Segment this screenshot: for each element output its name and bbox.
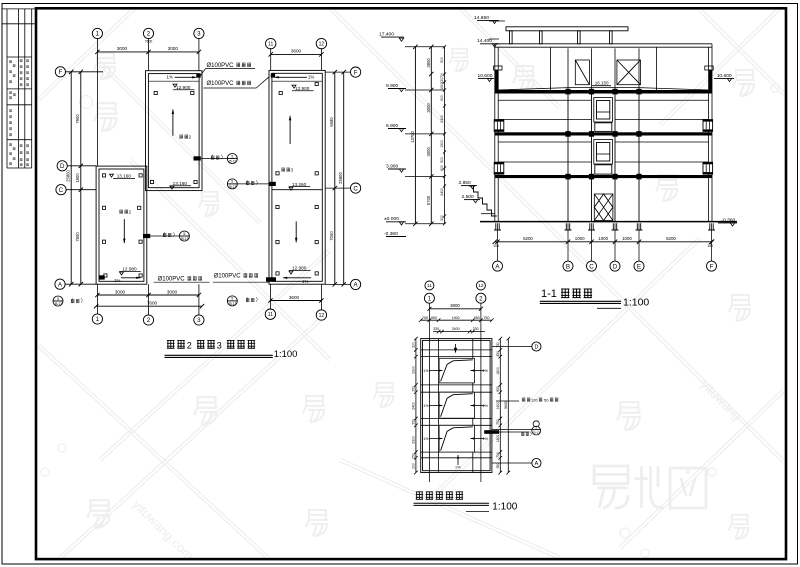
right dim chains bbox=[333, 70, 346, 287]
svg-text:2300: 2300 bbox=[412, 436, 416, 444]
svg-text:9.900: 9.900 bbox=[386, 83, 399, 89]
svg-text:13.260: 13.260 bbox=[292, 182, 307, 187]
svg-text:200: 200 bbox=[412, 342, 416, 348]
svg-text:6580: 6580 bbox=[329, 117, 334, 127]
svg-text:C: C bbox=[589, 263, 594, 270]
watermark circles bbox=[80, 96, 93, 109]
svg-text:1: 1 bbox=[96, 31, 100, 38]
slope arrow right shaft lower bbox=[295, 221, 297, 242]
svg-text:3000: 3000 bbox=[168, 46, 179, 51]
svg-text:16.150: 16.150 bbox=[595, 81, 609, 86]
elevator shaft car 2F bbox=[594, 140, 613, 165]
axis leaders (bottom plan) bbox=[429, 303, 481, 338]
svg-text:3: 3 bbox=[197, 317, 201, 324]
axis circle D section bbox=[610, 261, 620, 271]
roof vent left bbox=[575, 60, 589, 85]
svg-text:3800: 3800 bbox=[450, 303, 460, 308]
window right 2F bbox=[703, 162, 713, 174]
svg-text:〉: 〉 bbox=[81, 297, 86, 304]
svg-text:J5-13: J5-13 bbox=[228, 160, 236, 164]
svg-text:F: F bbox=[354, 69, 358, 76]
svg-text:5: 5 bbox=[57, 297, 59, 301]
watermark logo bottom right bbox=[594, 466, 628, 508]
horizontal beam lines bbox=[421, 350, 492, 458]
svg-text:2400: 2400 bbox=[440, 188, 444, 196]
ramp cell 2 bbox=[439, 392, 474, 418]
svg-text:2300: 2300 bbox=[412, 366, 416, 374]
exterior stair left bbox=[469, 186, 497, 216]
svg-text:1:100: 1:100 bbox=[492, 501, 517, 512]
axis circle 12 bbox=[316, 38, 326, 48]
svg-text:200: 200 bbox=[412, 463, 416, 469]
svg-text:1%: 1% bbox=[302, 279, 308, 284]
roof2 label upper shaft bbox=[179, 135, 182, 139]
interior columns B C D E bbox=[568, 94, 639, 222]
svg-text:1:100: 1:100 bbox=[623, 297, 649, 309]
penthouse axis walls above roof bbox=[568, 48, 639, 90]
axis circle 11 bbox=[266, 38, 276, 48]
svg-text:5: 5 bbox=[535, 426, 537, 430]
axis circle A (bottom plan) bbox=[532, 458, 541, 467]
svg-text:F: F bbox=[59, 69, 63, 76]
svg-text:F: F bbox=[710, 263, 714, 270]
svg-text:7900: 7900 bbox=[75, 114, 80, 124]
svg-text:±0.000: ±0.000 bbox=[384, 216, 399, 222]
right axis leaders bbox=[325, 72, 350, 284]
svg-text:300: 300 bbox=[440, 215, 444, 221]
svg-text:950: 950 bbox=[431, 316, 437, 320]
ramp cell 3 bbox=[439, 425, 474, 452]
svg-text:1600: 1600 bbox=[496, 402, 500, 410]
svg-text:2.850: 2.850 bbox=[459, 180, 472, 186]
svg-text:2: 2 bbox=[147, 31, 151, 38]
svg-text:J5-13: J5-13 bbox=[54, 302, 62, 306]
svg-text:25800: 25800 bbox=[338, 172, 343, 184]
axis circle B section bbox=[563, 261, 573, 271]
svg-text:3800: 3800 bbox=[426, 58, 431, 68]
svg-text:3: 3 bbox=[197, 31, 201, 38]
axis circle F section bbox=[707, 261, 717, 271]
upper shaft walls (roof 2) bbox=[146, 71, 203, 191]
svg-text:600: 600 bbox=[440, 165, 444, 171]
svg-text:3000: 3000 bbox=[426, 103, 431, 113]
axis circle 1 top (bottom plan) bbox=[424, 293, 434, 303]
svg-text:3000: 3000 bbox=[426, 146, 431, 156]
svg-text:7000: 7000 bbox=[329, 231, 334, 241]
axis circle 3 bbox=[194, 28, 204, 38]
svg-text:950: 950 bbox=[496, 463, 500, 469]
svg-text:900: 900 bbox=[440, 57, 444, 63]
svg-text:1%: 1% bbox=[423, 437, 429, 441]
svg-text:3600: 3600 bbox=[289, 295, 300, 300]
floor3 slab bbox=[495, 132, 712, 135]
axis circle C section bbox=[587, 261, 597, 271]
svg-text:11: 11 bbox=[427, 283, 432, 289]
svg-text:25800: 25800 bbox=[66, 170, 71, 182]
bottom dim line 3600 bbox=[268, 298, 323, 302]
svg-text:1%: 1% bbox=[423, 369, 429, 373]
beam blobs at axes bbox=[565, 89, 570, 95]
svg-text:14.650: 14.650 bbox=[474, 15, 489, 21]
dim row 750/950/1900/950/750 bbox=[419, 318, 494, 322]
svg-text:1000: 1000 bbox=[598, 236, 608, 241]
section dim chain total 13700 bbox=[413, 45, 417, 226]
svg-text:2: 2 bbox=[187, 340, 192, 350]
axis circle F right bbox=[351, 67, 361, 77]
svg-text:900: 900 bbox=[440, 157, 444, 163]
svg-text:5: 5 bbox=[231, 180, 233, 184]
axis circle C right bbox=[351, 183, 361, 193]
top dimension line 1-3 bbox=[95, 50, 201, 54]
axis circle 3 bottom bbox=[194, 315, 204, 325]
svg-text:5: 5 bbox=[183, 232, 185, 236]
svg-text:250: 250 bbox=[412, 419, 416, 425]
left dim chain (bottom plan) bbox=[414, 337, 418, 475]
axis circle D left bbox=[57, 161, 67, 171]
svg-text:1%: 1% bbox=[308, 75, 314, 80]
svg-text:3: 3 bbox=[217, 340, 222, 350]
svg-text:750: 750 bbox=[496, 419, 500, 425]
plus-minus zero line left bbox=[481, 213, 495, 215]
dim 3800 (bottom plan) bbox=[427, 307, 483, 311]
svg-text:750: 750 bbox=[422, 316, 428, 320]
svg-text:1-1: 1-1 bbox=[541, 288, 557, 300]
svg-text:1800: 1800 bbox=[75, 173, 80, 183]
svg-text:13700: 13700 bbox=[410, 131, 415, 143]
svg-text:〉: 〉 bbox=[173, 231, 178, 238]
svg-text:7600: 7600 bbox=[147, 301, 158, 306]
svg-text:Ø100PVC: Ø100PVC bbox=[158, 277, 186, 283]
svg-text:120: 120 bbox=[531, 398, 538, 403]
top dimension line 11-12 bbox=[269, 52, 324, 56]
svg-text:9600: 9600 bbox=[504, 401, 508, 409]
bottom dim line 7600 bbox=[94, 304, 204, 308]
axis circle E section bbox=[634, 261, 644, 271]
svg-text:E: E bbox=[637, 263, 641, 270]
watermark yi glyphs bbox=[94, 103, 117, 131]
svg-text:5200: 5200 bbox=[523, 236, 533, 241]
mid-bay verticals above roof bbox=[551, 47, 657, 90]
svg-text:50: 50 bbox=[544, 398, 549, 403]
bottom dim line section bbox=[493, 240, 715, 244]
leaders to D and A circles bbox=[492, 347, 532, 464]
detail marker M2 bbox=[227, 179, 237, 189]
right dim total (bottom plan) bbox=[507, 337, 511, 475]
axis verticals inside bbox=[429, 339, 481, 473]
svg-text:3000: 3000 bbox=[117, 46, 128, 51]
svg-text:3000: 3000 bbox=[167, 289, 178, 294]
svg-text:10.600: 10.600 bbox=[717, 73, 732, 79]
svg-text:13.160: 13.160 bbox=[117, 174, 132, 179]
gutter lines shaft tops bbox=[149, 80, 323, 82]
svg-text:900: 900 bbox=[440, 95, 444, 101]
svg-text:250: 250 bbox=[412, 386, 416, 392]
detail marker (bottom plan) bbox=[533, 421, 539, 427]
svg-text:1: 1 bbox=[96, 316, 100, 323]
section axis leader stubs bbox=[498, 223, 712, 261]
svg-text:17.400: 17.400 bbox=[379, 32, 394, 38]
svg-text:5: 5 bbox=[231, 154, 233, 158]
svg-text:Ø100PVC: Ø100PVC bbox=[214, 274, 242, 280]
svg-text:950: 950 bbox=[474, 316, 480, 320]
svg-text:1%: 1% bbox=[167, 75, 173, 80]
svg-text:250: 250 bbox=[412, 453, 416, 459]
outer wall right bbox=[709, 44, 712, 222]
lower-left room walls bbox=[96, 166, 147, 284]
note pingban text bbox=[522, 398, 525, 401]
elevator shaft car 3F bbox=[594, 98, 613, 123]
slope arrow upper shaft bbox=[172, 109, 174, 135]
title strip table bbox=[3, 9, 35, 168]
svg-text:5200: 5200 bbox=[666, 236, 676, 241]
svg-text:12: 12 bbox=[319, 41, 325, 47]
svg-text:13.160: 13.160 bbox=[173, 181, 188, 186]
svg-text:10.600: 10.600 bbox=[478, 73, 493, 79]
bottom axis stubs (bottom plan) bbox=[429, 473, 481, 483]
title strip tiny text bbox=[9, 60, 12, 63]
svg-text:3.900: 3.900 bbox=[386, 163, 399, 169]
svg-text:C: C bbox=[59, 187, 64, 194]
svg-text:1000: 1000 bbox=[622, 236, 632, 241]
svg-text:〉: 〉 bbox=[256, 296, 261, 303]
svg-text:1%: 1% bbox=[455, 465, 461, 469]
canopy slab 14.650 bbox=[506, 27, 628, 31]
floor2 slab bbox=[495, 175, 712, 178]
svg-text:1%: 1% bbox=[114, 278, 120, 283]
svg-text:1800: 1800 bbox=[496, 435, 500, 443]
svg-text:(2070): (2070) bbox=[440, 73, 444, 83]
axis circle A right bbox=[351, 279, 361, 289]
svg-text:950: 950 bbox=[496, 386, 500, 392]
roof slope lines bbox=[498, 88, 708, 90]
svg-text:3000: 3000 bbox=[115, 289, 126, 294]
svg-text:1500: 1500 bbox=[440, 140, 444, 148]
axis circle 12 bottom bbox=[316, 310, 326, 320]
svg-text:1%: 1% bbox=[423, 404, 429, 408]
detail marker M5 bbox=[53, 296, 63, 306]
roof vent right bbox=[617, 60, 641, 85]
dim row 330/2400/330 bbox=[433, 330, 485, 334]
svg-text:6.900: 6.900 bbox=[386, 123, 399, 129]
svg-text:2400: 2400 bbox=[452, 327, 460, 331]
elevator counterweights bbox=[595, 123, 612, 132]
axis circle 2 top (bottom plan) bbox=[476, 293, 486, 303]
svg-text:1900: 1900 bbox=[452, 316, 460, 320]
bottom dim line 3000/3000 bbox=[95, 293, 201, 297]
svg-text:2400: 2400 bbox=[440, 115, 444, 123]
roof3 label right shaft bbox=[281, 168, 284, 172]
window right 3F bbox=[703, 120, 713, 132]
svg-text:12: 12 bbox=[319, 313, 325, 319]
svg-text:12.980: 12.980 bbox=[292, 266, 307, 271]
column squares bbox=[154, 91, 157, 94]
axis circle D (bottom plan) bbox=[532, 342, 541, 351]
svg-text:B: B bbox=[566, 263, 570, 270]
axis circle F left bbox=[55, 67, 65, 77]
detail marker M4 bbox=[227, 296, 237, 306]
svg-text:J5-13: J5-13 bbox=[228, 185, 236, 189]
left axis leaders bbox=[65, 72, 103, 284]
svg-text:450: 450 bbox=[496, 351, 500, 357]
roof slab bbox=[495, 90, 712, 94]
plan title bbox=[167, 340, 175, 348]
axis circle 11 top (bottom plan) bbox=[425, 281, 434, 290]
ground line bbox=[480, 221, 737, 223]
svg-text:2: 2 bbox=[147, 317, 151, 324]
svg-text:1800: 1800 bbox=[496, 367, 500, 375]
right shaft walls (roof 3) bbox=[269, 70, 325, 284]
svg-text:D: D bbox=[613, 263, 618, 270]
axis circle 1 bottom bbox=[92, 314, 102, 324]
axis circle A section bbox=[493, 261, 503, 271]
svg-text:1%: 1% bbox=[483, 437, 489, 441]
elevator door ground diamond bbox=[594, 194, 613, 221]
axis circle 2 bbox=[143, 28, 153, 38]
section fine dim chain bbox=[443, 45, 446, 225]
svg-text:1%: 1% bbox=[483, 369, 489, 373]
axis circle 1 bbox=[92, 28, 102, 38]
svg-text:2400: 2400 bbox=[412, 402, 416, 410]
svg-text:-0.360: -0.360 bbox=[721, 217, 735, 223]
axis circle C left bbox=[56, 185, 66, 195]
upper roof slab line bbox=[495, 44, 712, 47]
svg-text:330: 330 bbox=[473, 327, 479, 331]
svg-text:1000: 1000 bbox=[575, 236, 585, 241]
right shaft mid level line bbox=[272, 189, 322, 191]
watermark diagonals bbox=[37, 7, 136, 101]
svg-text:〉: 〉 bbox=[530, 431, 535, 436]
svg-text:C: C bbox=[353, 185, 358, 192]
svg-text:J5-13: J5-13 bbox=[228, 302, 236, 306]
window left 2F bbox=[494, 162, 504, 174]
svg-text:Ø100PVC: Ø100PVC bbox=[207, 81, 235, 87]
detail marker M1 bbox=[227, 154, 237, 164]
svg-text:J5-13: J5-13 bbox=[180, 237, 188, 241]
parapet caps bbox=[494, 66, 502, 70]
detail marker M3 bbox=[179, 231, 189, 241]
axis circle 12 top (bottom plan) bbox=[476, 281, 485, 290]
svg-text:100: 100 bbox=[493, 244, 499, 248]
outer wall left bbox=[495, 44, 498, 222]
svg-text:D: D bbox=[60, 163, 65, 170]
svg-text:750: 750 bbox=[483, 316, 489, 320]
lintel/sill lines bbox=[498, 100, 708, 162]
slope arrow lower-left bbox=[123, 219, 125, 243]
section dim chain floors bbox=[429, 45, 433, 226]
svg-text:〉: 〉 bbox=[221, 154, 226, 161]
svg-text:2.500: 2.500 bbox=[462, 194, 475, 200]
svg-text:750: 750 bbox=[496, 452, 500, 458]
ramp cell 1 bbox=[439, 358, 474, 383]
title strip tiny text bbox=[9, 59, 29, 166]
roof2 label lower-left bbox=[119, 210, 122, 214]
window left 3F bbox=[494, 120, 504, 132]
svg-text:〉: 〉 bbox=[256, 179, 261, 186]
svg-text:12.980: 12.980 bbox=[122, 267, 137, 272]
bottom axis leader stubs bbox=[97, 284, 321, 315]
slope arrow right shaft upper bbox=[289, 116, 291, 144]
svg-text:11: 11 bbox=[268, 41, 273, 47]
svg-text:D: D bbox=[534, 344, 538, 350]
axis circle A left bbox=[55, 279, 65, 289]
axis leader lines top bbox=[97, 39, 321, 167]
level connector lines left bbox=[405, 21, 505, 224]
pipe bar right (bottom plan) bbox=[484, 430, 499, 434]
svg-text:-0.360: -0.360 bbox=[384, 231, 398, 237]
svg-text:5: 5 bbox=[231, 297, 233, 301]
svg-text:1500: 1500 bbox=[440, 82, 444, 90]
below-ground column stubs bbox=[494, 223, 501, 230]
svg-text:5700: 5700 bbox=[426, 195, 431, 205]
left dim chain segments bbox=[69, 70, 83, 287]
bottom plan title bbox=[416, 492, 423, 500]
axis circle 11 bottom bbox=[265, 309, 275, 319]
right dim chain (bottom plan) bbox=[499, 337, 503, 475]
axis circle 2 bottom bbox=[143, 315, 153, 325]
svg-text:1%: 1% bbox=[483, 404, 489, 408]
svg-text:A: A bbox=[535, 461, 539, 467]
svg-text:3600: 3600 bbox=[291, 49, 302, 54]
svg-text:330: 330 bbox=[433, 327, 439, 331]
svg-text:7800: 7800 bbox=[75, 232, 80, 242]
pipe penetration marks bbox=[194, 156, 201, 160]
svg-text:12.900: 12.900 bbox=[295, 86, 310, 91]
svg-text:100: 100 bbox=[707, 244, 713, 248]
svg-text:12.900: 12.900 bbox=[176, 85, 191, 90]
canopy posts bbox=[510, 31, 513, 44]
svg-text:1:100: 1:100 bbox=[274, 349, 298, 360]
outer walls (bottom plan) bbox=[421, 339, 492, 473]
svg-text:12: 12 bbox=[478, 283, 484, 289]
svg-text:11: 11 bbox=[268, 312, 273, 318]
